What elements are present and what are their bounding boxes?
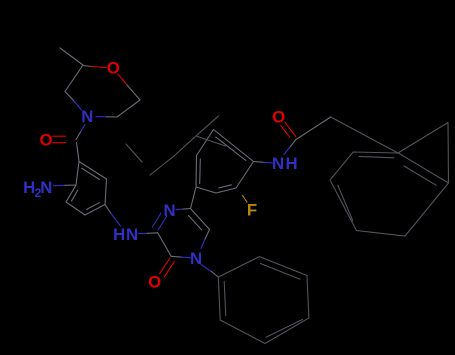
phantom bottom hexagon inner lines [261, 264, 301, 280]
C=O double bond (amide1) [53, 135, 66, 137]
svg-text:O: O [39, 130, 52, 149]
svg-text:N: N [190, 249, 202, 268]
bond O-C5 morpholine [118, 74, 127, 85]
svg-text:O: O [107, 59, 120, 78]
svg-text:N: N [163, 201, 175, 220]
svg-text:N: N [126, 225, 138, 244]
H2N bond [54, 184, 66, 186]
svg-text:N: N [272, 154, 284, 173]
C5=C6 inner line [189, 216, 202, 230]
ring1 inner aromatic lines [82, 168, 100, 179]
phantom branch [196, 116, 219, 136]
svg-text:O: O [272, 107, 285, 126]
bond ring2 - NH amide2 [254, 161, 264, 164]
svg-text:H: H [23, 178, 35, 197]
svg-text:N: N [81, 107, 93, 126]
bond C3-O morpholine [83, 66, 92, 67]
amide1: morpholine N - C(=O) [81, 125, 86, 133]
phantom chain long bond [331, 117, 398, 153]
svg-text:H: H [113, 225, 125, 244]
bond C-F [243, 196, 248, 203]
svg-text:F: F [247, 201, 257, 220]
C6-C5 [191, 209, 210, 230]
phantom right hexagon [330, 152, 449, 236]
benzene ring 2 [195, 156, 198, 188]
amide2: NH - C(=O) [284, 147, 290, 155]
N4 - phenyl bond (to phantom ring) [201, 265, 211, 272]
bond amide1 C - ring1 C1 [77, 143, 80, 162]
N4-C3 [181, 256, 191, 259]
svg-text:H: H [285, 154, 297, 173]
svg-text:O: O [148, 272, 161, 291]
N1-C6 [176, 208, 183, 211]
phantom chain rising bond [398, 123, 448, 154]
C=O double bond (amide2) [285, 122, 296, 136]
bond N4-C5 morpholine [96, 116, 107, 118]
wire C5-C6 of morpholine [117, 100, 140, 117]
phantom center zigzag [150, 136, 226, 175]
C5-N4 [205, 230, 210, 240]
wire C3-C2 of morpholine [65, 65, 83, 92]
benzene ring 1 [79, 162, 107, 180]
C2=N1 double bond [158, 216, 167, 230]
svg-text:N: N [40, 178, 52, 197]
bond amide2 C - CH [296, 117, 331, 140]
ring2 inner aromatic lines [199, 159, 202, 184]
phantom right vertical stub [447, 123, 450, 184]
bond ring1 C3 - NH [105, 205, 111, 214]
phantom bottom hexagon (N-phenyl) [218, 257, 309, 344]
bond HN - C2 pyrazinone [139, 232, 148, 234]
C3-C2 [158, 233, 172, 257]
phantom right hexagon inner lines [359, 156, 394, 157]
phantom diagonal [126, 144, 142, 162]
methyl on morpholine C3 [60, 48, 83, 65]
C3=O double bond [160, 258, 170, 274]
bond N4-C3' morpholine [74, 101, 82, 111]
bond C6 - ring2 [191, 187, 197, 209]
